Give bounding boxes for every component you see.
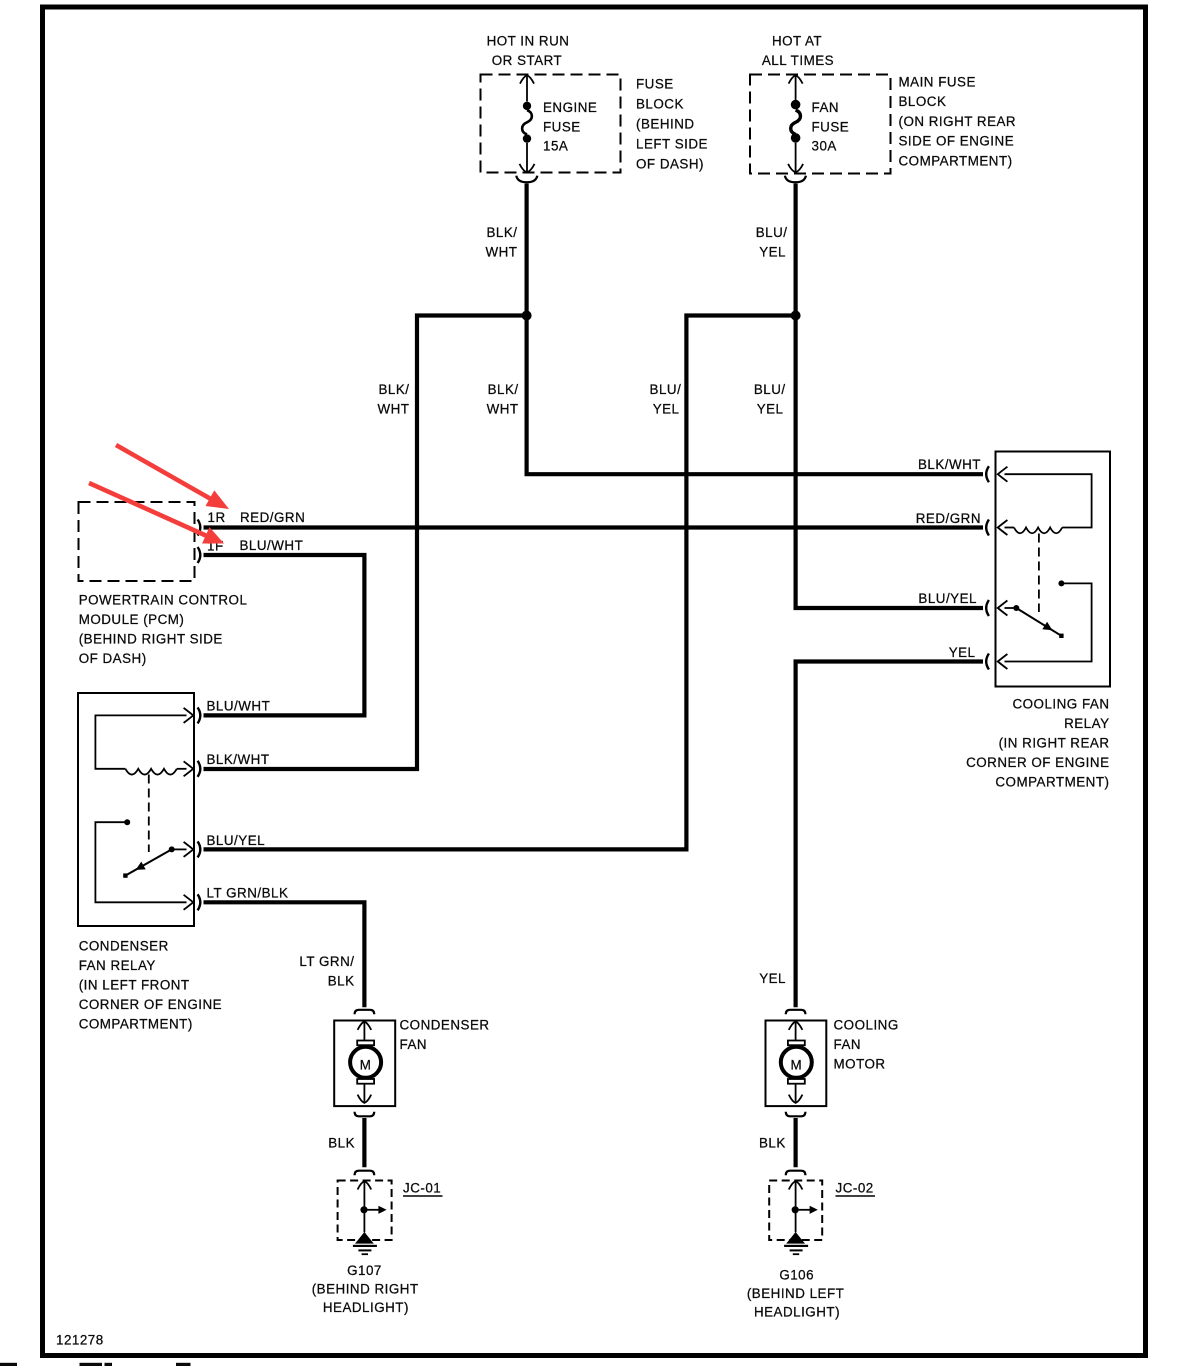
svg-text:MAIN FUSE: MAIN FUSE bbox=[899, 74, 976, 89]
svg-text:FUSE: FUSE bbox=[812, 119, 850, 134]
svg-text:(BEHIND: (BEHIND bbox=[636, 117, 695, 132]
svg-text:BLK/WHT: BLK/WHT bbox=[918, 457, 981, 472]
svg-text:121278: 121278 bbox=[56, 1333, 104, 1348]
svg-text:(IN LEFT FRONT: (IN LEFT FRONT bbox=[79, 977, 190, 992]
svg-text:15A: 15A bbox=[543, 139, 568, 154]
svg-text:FUSE: FUSE bbox=[636, 76, 674, 91]
svg-text:CORNER OF ENGINE: CORNER OF ENGINE bbox=[79, 997, 222, 1012]
svg-text:G106: G106 bbox=[779, 1268, 814, 1283]
svg-text:MODULE (PCM): MODULE (PCM) bbox=[79, 612, 185, 627]
svg-text:(ON RIGHT REAR: (ON RIGHT REAR bbox=[899, 114, 1017, 129]
svg-text:BLU/WHT: BLU/WHT bbox=[207, 699, 271, 714]
svg-text:ENGINE: ENGINE bbox=[543, 100, 597, 115]
svg-text:WHT: WHT bbox=[487, 402, 519, 417]
svg-text:BLOCK: BLOCK bbox=[636, 97, 684, 112]
svg-text:BLK/: BLK/ bbox=[486, 225, 517, 240]
svg-text:BLU/: BLU/ bbox=[754, 382, 786, 397]
svg-text:(BEHIND RIGHT: (BEHIND RIGHT bbox=[312, 1282, 419, 1297]
svg-text:RELAY: RELAY bbox=[1064, 716, 1109, 731]
svg-text:YEL: YEL bbox=[949, 645, 976, 660]
svg-text:HOT IN RUN: HOT IN RUN bbox=[487, 33, 570, 48]
svg-text:OF DASH): OF DASH) bbox=[636, 157, 704, 172]
svg-text:HOT AT: HOT AT bbox=[772, 33, 822, 48]
svg-text:OR START: OR START bbox=[492, 53, 562, 68]
svg-text:JC-01: JC-01 bbox=[403, 1181, 441, 1196]
svg-text:BLK/: BLK/ bbox=[378, 382, 409, 397]
svg-text:30A: 30A bbox=[812, 139, 837, 154]
svg-text:ALL TIMES: ALL TIMES bbox=[762, 53, 834, 68]
svg-text:HEADLIGHT): HEADLIGHT) bbox=[754, 1305, 840, 1320]
svg-text:BLK/: BLK/ bbox=[488, 382, 519, 397]
svg-text:FAN: FAN bbox=[834, 1037, 862, 1052]
svg-text:FAN: FAN bbox=[812, 100, 840, 115]
svg-text:OF DASH): OF DASH) bbox=[79, 651, 147, 666]
svg-text:FAN RELAY: FAN RELAY bbox=[79, 958, 156, 973]
svg-text:CONDENSER: CONDENSER bbox=[79, 939, 169, 954]
svg-text:M: M bbox=[790, 1058, 802, 1073]
svg-text:COMPARTMENT): COMPARTMENT) bbox=[899, 154, 1013, 169]
svg-text:(BEHIND LEFT: (BEHIND LEFT bbox=[747, 1286, 845, 1301]
svg-text:WHT: WHT bbox=[378, 402, 410, 417]
svg-text:BLU/YEL: BLU/YEL bbox=[207, 833, 266, 848]
svg-text:BLK: BLK bbox=[328, 1136, 355, 1151]
svg-text:LT GRN/: LT GRN/ bbox=[299, 954, 354, 969]
svg-text:RED/GRN: RED/GRN bbox=[916, 511, 981, 526]
svg-text:CONDENSER: CONDENSER bbox=[400, 1018, 490, 1033]
svg-text:POWERTRAIN CONTROL: POWERTRAIN CONTROL bbox=[79, 593, 248, 608]
svg-text:SIDE OF ENGINE: SIDE OF ENGINE bbox=[899, 133, 1015, 148]
svg-text:(IN RIGHT REAR: (IN RIGHT REAR bbox=[999, 736, 1110, 751]
svg-text:COOLING FAN: COOLING FAN bbox=[1012, 697, 1109, 712]
svg-text:BLU/: BLU/ bbox=[650, 382, 682, 397]
svg-text:1R: 1R bbox=[208, 510, 226, 525]
svg-text:BLK/WHT: BLK/WHT bbox=[207, 752, 270, 767]
svg-text:BLK: BLK bbox=[328, 974, 355, 989]
svg-text:FUSE: FUSE bbox=[543, 119, 581, 134]
svg-text:YEL: YEL bbox=[759, 971, 786, 986]
svg-text:G107: G107 bbox=[347, 1263, 382, 1278]
svg-text:BLU/: BLU/ bbox=[756, 225, 788, 240]
svg-text:BLOCK: BLOCK bbox=[899, 94, 947, 109]
svg-text:M: M bbox=[360, 1058, 372, 1073]
svg-text:MOTOR: MOTOR bbox=[834, 1057, 886, 1072]
svg-text:LEFT SIDE: LEFT SIDE bbox=[636, 137, 708, 152]
svg-text:HEADLIGHT): HEADLIGHT) bbox=[323, 1300, 409, 1315]
svg-text:CORNER OF ENGINE: CORNER OF ENGINE bbox=[966, 755, 1109, 770]
svg-text:JC-02: JC-02 bbox=[836, 1181, 874, 1196]
svg-text:LT GRN/BLK: LT GRN/BLK bbox=[207, 886, 289, 901]
svg-text:YEL: YEL bbox=[759, 245, 786, 260]
svg-text:COOLING: COOLING bbox=[834, 1018, 899, 1033]
svg-text:(BEHIND RIGHT SIDE: (BEHIND RIGHT SIDE bbox=[79, 632, 223, 647]
svg-text:BLU/WHT: BLU/WHT bbox=[240, 538, 304, 553]
svg-text:WHT: WHT bbox=[486, 245, 518, 260]
svg-text:YEL: YEL bbox=[757, 402, 784, 417]
svg-text:YEL: YEL bbox=[653, 402, 680, 417]
svg-text:FAN: FAN bbox=[400, 1037, 428, 1052]
svg-text:COMPARTMENT): COMPARTMENT) bbox=[995, 775, 1109, 790]
svg-text:BLU/YEL: BLU/YEL bbox=[918, 591, 977, 606]
svg-text:BLK: BLK bbox=[759, 1136, 786, 1151]
svg-text:RED/GRN: RED/GRN bbox=[240, 510, 305, 525]
svg-text:COMPARTMENT): COMPARTMENT) bbox=[79, 1016, 193, 1031]
